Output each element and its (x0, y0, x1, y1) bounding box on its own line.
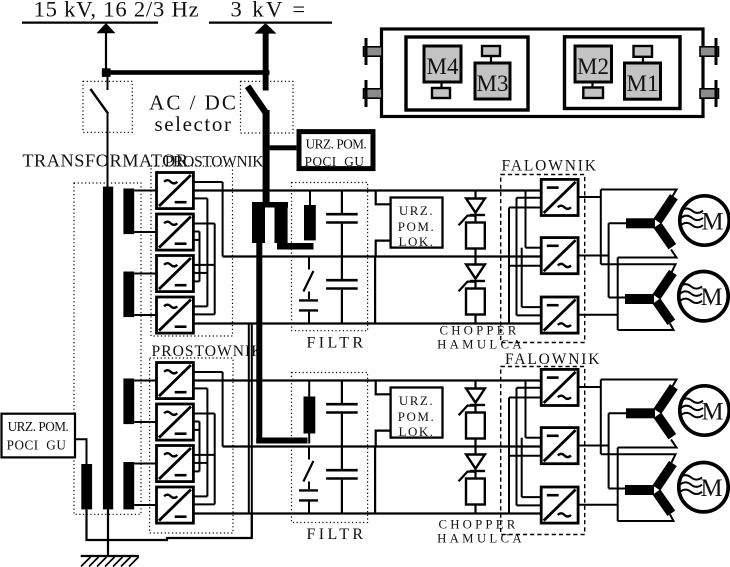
wheel left bottom (364, 80, 383, 107)
svg-text:POM.: POM. (398, 219, 435, 234)
wire DC bus3 bottom (193, 322, 541, 324)
wire inverter F2 output (578, 255, 609, 257)
brake chopper Q2 (459, 257, 486, 324)
wire LOK2 upper stub (376, 381, 391, 395)
switch S2 blade thick (248, 86, 266, 113)
rectifier group 1 collector wiring (193, 182, 222, 314)
svg-text:HAMULCA: HAMULCA (437, 532, 525, 546)
wire thick feed to group 2 filter (256, 243, 262, 444)
wire secondary2 to rectifier U3 (134, 273, 156, 275)
choke bottom thick elbow group2 (256, 438, 307, 444)
svg-text:PROSTOWNIK: PROSTOWNIK (165, 154, 264, 171)
inverter group 1 dashed box (501, 175, 585, 343)
smoothing choke L2 bar (275, 202, 288, 243)
wire M2 top phase (601, 264, 676, 272)
wire into switch S1 (107, 75, 109, 90)
svg-text:URZ. POM.: URZ. POM. (306, 137, 367, 152)
svg-text:URZ.: URZ. (399, 203, 434, 218)
pantograph arrow DC (255, 23, 277, 91)
smoothing choke L1 bar (252, 202, 265, 243)
svg-text:M2: M2 (577, 54, 609, 79)
wire link bus3 to bus3' (251, 324, 253, 539)
svg-text:FALOWNIK: FALOWNIK (505, 351, 601, 368)
wire transformer to ground (107, 509, 109, 556)
wire DC bus1' top (group 2) (193, 379, 541, 381)
brake chopper Q1 (459, 191, 486, 258)
wire M3 bottom phase (618, 440, 677, 448)
wire bus1 to choke L3 (309, 191, 311, 206)
inverter F3 (541, 297, 578, 333)
motor M1 (626, 194, 729, 249)
rectifier U3 (157, 256, 194, 292)
wire secondary4 to rectifier U7 (134, 463, 156, 465)
switch S1 dashed box (83, 81, 132, 132)
wire top bus AC/DC (102, 70, 270, 75)
wire phase V vertical (617, 258, 619, 331)
gearbox M2 (591, 82, 593, 88)
wire M1 bottom phase (618, 250, 677, 258)
brake chopper Q3 (459, 381, 486, 448)
filter 1 dashed box (292, 183, 368, 331)
wire thick 3kV feed down (263, 110, 270, 204)
rectifier U7 (157, 446, 194, 482)
wire aux box to aux winding (75, 439, 87, 464)
wire inverter F5 output (578, 445, 609, 447)
wire link bus2-bus3 vertical (374, 257, 376, 324)
wire LOK1 upper stub (376, 191, 391, 205)
svg-text:M3: M3 (477, 71, 509, 96)
box URZ. POM. POCIAGU (train aux supply) (299, 132, 373, 169)
rectifier U5 (157, 363, 194, 399)
wheel left top (364, 38, 383, 65)
svg-text:LOK.: LOK. (399, 424, 435, 439)
wire LOK2 lower stub (376, 431, 391, 447)
rectifier group 2 dashed box (150, 358, 233, 533)
wire inverter F3 output (578, 314, 618, 316)
transformer secondary winding 1 (123, 189, 134, 235)
svg-text:FILTR: FILTR (307, 335, 367, 352)
filter choke L3 bar (304, 205, 316, 240)
rectifier U8 (157, 487, 194, 523)
wire secondary1 to rectifier U2 (134, 231, 156, 233)
filter choke L3' bar (304, 397, 316, 434)
transformer aux winding bar (81, 464, 92, 509)
wire LOK1 lower stub (376, 241, 391, 257)
wire secondary3 to rectifier U5 (134, 380, 156, 382)
transformer primary winding bar (103, 187, 113, 510)
choke top connector (252, 202, 288, 208)
svg-text:CHOPPER: CHOPPER (439, 324, 519, 338)
svg-text:URZ. POM.: URZ. POM. (8, 419, 69, 434)
wire M3 mid phase (609, 412, 627, 414)
svg-text:3 kV =: 3 kV = (231, 0, 308, 22)
wheel right top (700, 38, 719, 65)
svg-text:LOK.: LOK. (399, 234, 435, 249)
transformer secondary winding 2 (123, 272, 134, 318)
wire DC bus2' mid (group 2) (223, 445, 542, 447)
bogie 1 box (406, 37, 528, 110)
rectifier group 2 collector wiring (193, 372, 222, 504)
choke bottom thick elbow (277, 243, 314, 250)
wire catenary 3kV (209, 21, 332, 23)
locomotive body outline (382, 29, 704, 117)
wire phase U vertical group2 (600, 380, 602, 455)
inverter F5 (541, 428, 578, 464)
inverter group 2 input wiring (509, 381, 541, 514)
wire link bus2 to bus1' (248, 324, 250, 514)
svg-text:15 kV, 16 2/3 Hz: 15 kV, 16 2/3 Hz (34, 0, 200, 22)
rectifier group 1 dashed box (151, 166, 233, 336)
motor M2 (625, 270, 728, 325)
svg-text:POCI GU: POCI GU (305, 154, 365, 169)
wire DC bus1 top (193, 189, 541, 191)
gearbox M1 (634, 46, 653, 57)
inverter F4 (541, 369, 578, 405)
brake chopper Q4 (459, 447, 486, 514)
inverter group 2 dashed box (501, 367, 585, 535)
svg-text:POCI GU: POCI GU (7, 438, 67, 453)
gearbox M3 (482, 46, 500, 56)
motor block M4 (424, 46, 461, 82)
svg-text:FILTR: FILTR (307, 526, 367, 543)
rectifier U6 (157, 404, 194, 440)
transformer secondary winding 4 (123, 462, 134, 509)
wheel right bottom (700, 80, 719, 107)
wire DC bus3' bottom (group 2) (193, 512, 541, 514)
motor M3 (626, 384, 729, 439)
wire phase W vertical (608, 223, 610, 297)
box URZ. POM. POCIAGU (left aux) (2, 414, 76, 458)
wire phase V vertical group2 (617, 448, 619, 522)
motor block M3 (475, 63, 510, 99)
wire inverter F1 output (578, 196, 601, 198)
wire catenary 15kV (22, 21, 158, 23)
rectifier U4 (157, 297, 194, 333)
switch S1 blade (90, 89, 108, 114)
wire M1 top phase (601, 190, 677, 198)
wire thick stub to train aux box (270, 145, 297, 150)
wire secondary1 to rectifier U1 (134, 190, 156, 192)
filter switch+capacitor branch 2 (299, 447, 318, 514)
wire link bus2'-bus3' vertical (374, 447, 376, 514)
svg-text:M1: M1 (627, 71, 659, 96)
wire phase W vertical group2 (608, 413, 610, 488)
wire secondary2 to rectifier U4 (134, 314, 156, 316)
wire M2 bottom phase (618, 324, 674, 331)
svg-text:HAMULCA: HAMULCA (437, 338, 525, 352)
box URZ. POM. LOK. 1 (391, 198, 443, 250)
inverter F1 (541, 179, 578, 215)
ground symbol (81, 556, 139, 567)
switch S2 dashed box (241, 81, 294, 133)
wire inverter F6 output (578, 504, 618, 506)
transformer dashed box (74, 183, 141, 514)
wire phase U vertical (600, 190, 602, 265)
wire M2 mid phase (609, 297, 626, 299)
wire inverter F4 output (578, 386, 601, 388)
svg-text:URZ.: URZ. (399, 393, 434, 408)
inverter F6 (541, 487, 578, 523)
wire M4 top phase (601, 454, 676, 462)
inverter group 1 input wiring (509, 191, 541, 324)
svg-text:selector: selector (154, 112, 232, 136)
wire switch S1 to transformer (107, 114, 109, 188)
filter capacitor C1' (326, 381, 358, 448)
svg-text:AC / DC: AC / DC (149, 91, 238, 115)
filter capacitor C1 (326, 191, 358, 258)
motor block M1 (625, 63, 661, 99)
transformer secondary winding 3 (123, 379, 134, 425)
wire choke L3' bottom stub (308, 434, 310, 444)
wire bus1' to choke L3' (308, 381, 310, 397)
wire M4 mid phase (609, 488, 626, 490)
rectifier U1 (157, 173, 194, 209)
motor block M2 (575, 46, 612, 82)
wire M1 mid phase (609, 222, 627, 224)
svg-text:M4: M4 (427, 54, 459, 79)
gearbox M4 (440, 82, 442, 88)
svg-text:CHOPPER: CHOPPER (438, 518, 518, 532)
wire aux winding return (87, 509, 252, 540)
filter capacitor C2' (326, 447, 358, 514)
rectifier U2 (157, 214, 194, 250)
wire DC bus2 mid (223, 255, 542, 257)
node junction AC feed (102, 68, 111, 77)
filter switch+capacitor branch 1 (299, 257, 318, 324)
wire M4 bottom phase (618, 515, 674, 522)
filter 2 dashed box (292, 373, 368, 523)
inverter F2 (541, 238, 578, 274)
pantograph arrow AC (97, 23, 116, 70)
motor M4 (625, 461, 728, 516)
wire M3 top phase (601, 380, 677, 388)
wire secondary3 to rectifier U6 (134, 421, 156, 423)
svg-text:POM.: POM. (398, 409, 435, 424)
wire secondary4 to rectifier U8 (134, 504, 156, 506)
bogie 2 box (565, 37, 681, 109)
svg-text:FALOWNIK: FALOWNIK (502, 158, 598, 175)
filter capacitor C2 (326, 257, 358, 324)
box URZ. POM. LOK. 2 (391, 388, 443, 440)
